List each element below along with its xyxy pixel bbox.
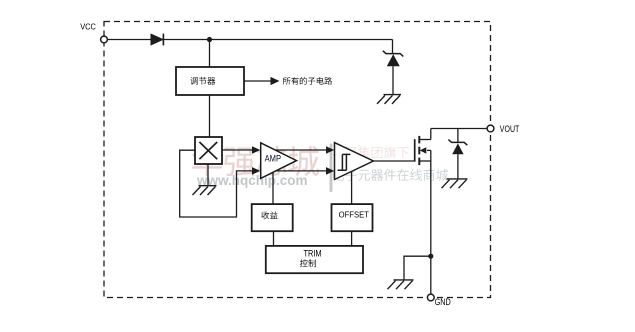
VOUT terminal	[487, 124, 519, 135]
wire multiplier to AMP upper input	[222, 146, 260, 154]
svg-text:TRIM: TRIM	[304, 248, 322, 258]
diode D1	[151, 34, 163, 46]
wire MOSFET source to GND terminal	[430, 150, 432, 294]
wire zener Z2 to ground	[457, 154, 459, 179]
wire VOUT rail to zener Z2	[457, 129, 459, 143]
svg-text:AMP: AMP	[265, 153, 281, 163]
ground for Z2	[442, 179, 468, 188]
wire comparator to offset box	[351, 171, 353, 204]
VCC terminal	[80, 22, 107, 43]
wire feedback loop to AMP lower input	[180, 150, 261, 217]
wire junction to regulator	[209, 40, 211, 68]
TRIM control box	[266, 246, 363, 273]
arrow to all sub-circuits 所有的子电路	[244, 77, 332, 85]
wire AMP to comparator lower	[276, 167, 334, 175]
zener diode Z2	[448, 140, 467, 155]
ground below multiplier	[193, 186, 217, 195]
regulator box 调节器	[176, 67, 244, 95]
wire multiplier to ground	[207, 164, 209, 186]
wire comparator to MOSFET gate	[373, 160, 415, 162]
wire VCC rail	[108, 39, 393, 41]
IC boundary dashed box	[104, 22, 491, 298]
svg-text:VCC: VCC	[80, 22, 96, 32]
multiplier (Hall element) X1	[195, 137, 222, 164]
ground for Z1	[377, 95, 401, 104]
wire MOSFET drain to VOUT rail	[431, 128, 488, 130]
svg-text:GND: GND	[435, 297, 452, 307]
transistor Q1 output MOSFET	[415, 129, 431, 166]
offset box OFFSET	[332, 204, 373, 231]
wire gain box to TRIM control	[273, 231, 275, 246]
wire offset box to TRIM control	[351, 231, 353, 246]
wire regulator to multiplier	[209, 95, 211, 137]
wire VCC rail to zener Z1	[392, 40, 394, 54]
gain box 收益	[252, 204, 293, 231]
comparator (Schmitt trigger)	[335, 143, 374, 180]
wire junction to substrate ground	[404, 256, 431, 280]
svg-text:VOUT: VOUT	[500, 124, 520, 135]
watermark	[192, 144, 448, 192]
wire zener Z1 to ground	[392, 66, 394, 94]
svg-text:OFFSET: OFFSET	[339, 209, 370, 219]
GND terminal	[427, 294, 451, 307]
junction node GND	[428, 254, 433, 259]
zener diode Z1	[383, 51, 404, 66]
wire AMP to comparator upper	[276, 146, 335, 154]
op-amp AMP	[261, 143, 297, 179]
ground substrate	[388, 280, 414, 289]
junction node VCC rail	[207, 37, 212, 42]
wire AMP to gain box	[272, 172, 274, 204]
